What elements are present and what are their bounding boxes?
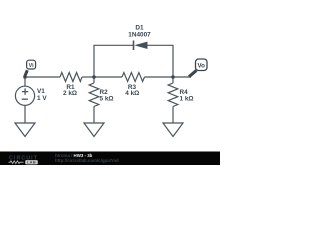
flag Vo pointer xyxy=(189,70,196,76)
ground under V1 xyxy=(15,123,35,137)
wire diode to riser down to node B xyxy=(148,45,174,77)
wire node A to R2 xyxy=(93,77,95,83)
svg-text:1 kΩ: 1 kΩ xyxy=(180,96,194,103)
resistor R4 xyxy=(168,83,178,107)
svg-text:2 kΩ: 2 kΩ xyxy=(63,90,77,97)
ground under R4 xyxy=(163,123,183,137)
resistor R3 xyxy=(122,73,145,82)
node Vi junction dot xyxy=(23,75,27,79)
wire node A to R3 xyxy=(94,76,122,78)
svg-text:5 kΩ: 5 kΩ xyxy=(100,96,114,103)
voltage source V1 xyxy=(15,86,34,105)
svg-text:D1: D1 xyxy=(135,25,144,32)
svg-text:1 V: 1 V xyxy=(37,95,47,102)
resistor R2 xyxy=(89,83,99,107)
svg-text:1N4007: 1N4007 xyxy=(128,32,151,39)
wire R4 to ground xyxy=(172,107,174,124)
wire V1 top to main wire xyxy=(24,77,26,86)
wire R3 to node B xyxy=(145,76,174,78)
wire R1 to node A xyxy=(82,76,94,78)
wire node B to Vo pointer xyxy=(173,76,191,78)
wire node B to R4 xyxy=(172,77,174,83)
wire R2 to ground xyxy=(93,107,95,124)
CircuitLab logo resistor glyph xyxy=(9,161,24,164)
CircuitLab logo LAB badge xyxy=(25,160,38,164)
svg-text:4 kΩ: 4 kΩ xyxy=(125,90,139,97)
wire left horizontal from Vi node to R1 xyxy=(25,76,61,78)
ground under R2 xyxy=(84,123,104,137)
diode D1 triangle xyxy=(134,42,147,49)
svg-text:http://circuitlab.com/c/gpa7md: http://circuitlab.com/c/gpa7md xyxy=(55,158,119,163)
diode D1 cathode bar xyxy=(133,41,135,51)
flag Vi box xyxy=(27,60,36,69)
flag Vo box xyxy=(196,59,208,71)
resistor R1 xyxy=(60,73,82,82)
svg-text:Vo: Vo xyxy=(197,63,205,70)
node A junction dot xyxy=(92,75,96,79)
V1 plus sign xyxy=(22,88,28,94)
svg-text:LAB: LAB xyxy=(27,160,36,165)
node B junction dot xyxy=(171,75,175,79)
wire riser node A up to diode row xyxy=(94,45,134,77)
flag Vi pointer xyxy=(25,70,28,76)
footer bar xyxy=(0,152,220,166)
svg-text:Vi: Vi xyxy=(29,63,34,69)
wire V1 bottom to ground xyxy=(24,105,26,123)
V1 minus sign xyxy=(22,98,28,100)
